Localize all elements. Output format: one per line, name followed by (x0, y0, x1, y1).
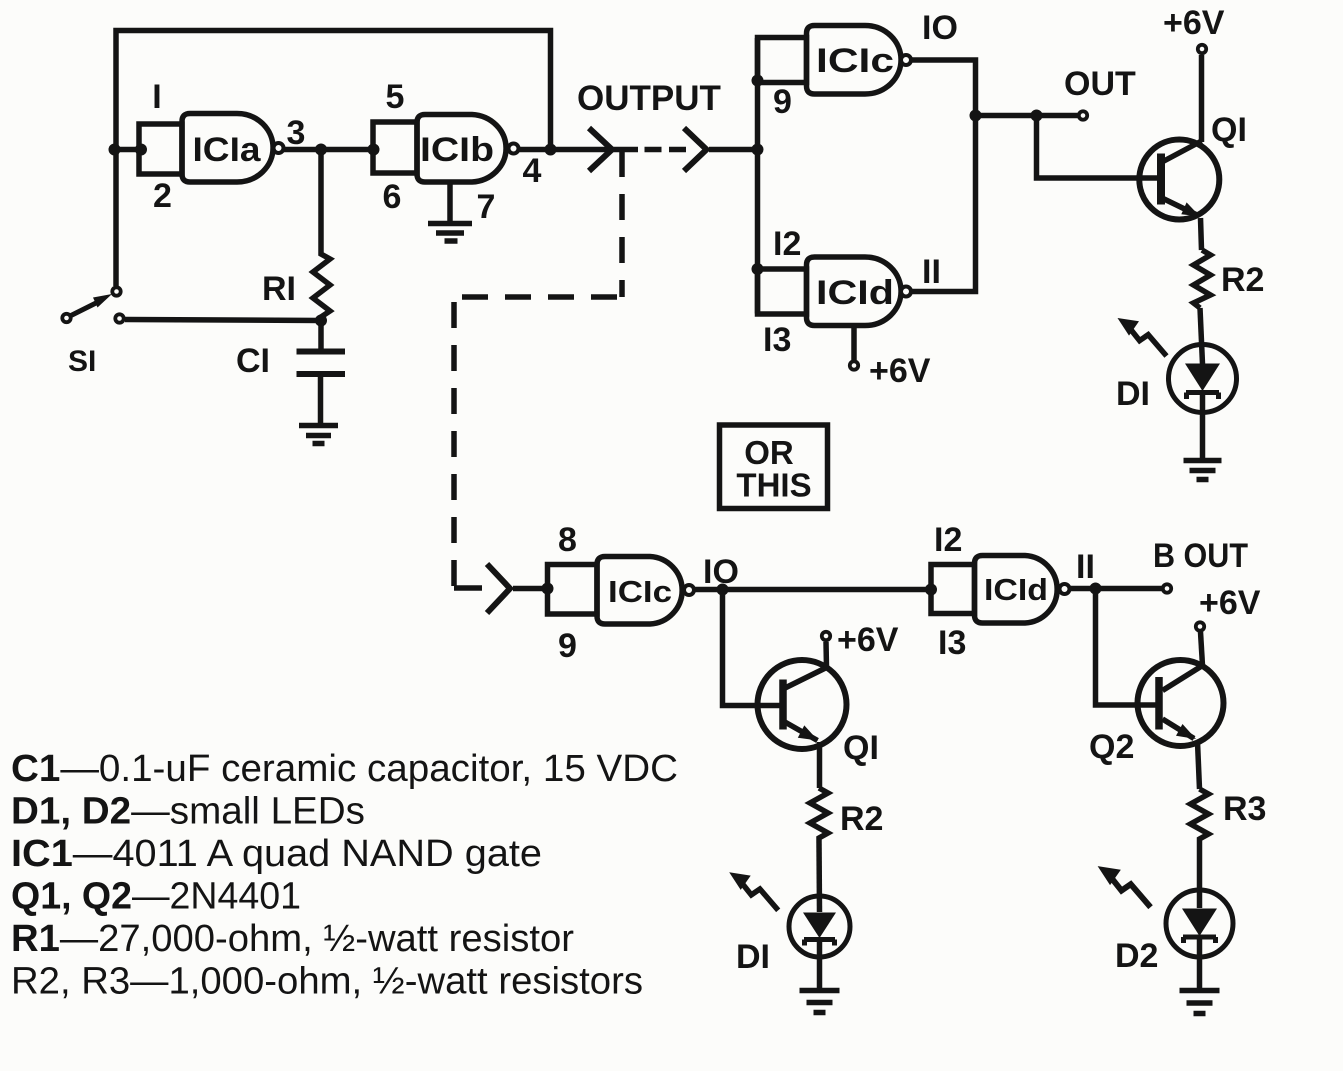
wire dashed alternate route (619, 151, 625, 297)
svg-text:R2: R2 (840, 800, 883, 838)
wire IC1b out to node 4 (519, 147, 608, 153)
svg-text:DI: DI (1116, 375, 1150, 413)
node pin12 junction (752, 263, 764, 275)
svg-text:C1—0.1-uF ceramic capacitor, 1: C1—0.1-uF ceramic capacitor, 15 VDC (11, 748, 678, 790)
node OUT branch (1031, 110, 1043, 122)
svg-text:ICId: ICId (984, 572, 1048, 607)
node pin9 junction (752, 75, 764, 87)
NAND gate IC1b body (417, 115, 506, 183)
arrow chevron 3 (into lower IC1c) (487, 564, 510, 613)
IC1c output bubble (bottom) (684, 585, 694, 595)
svg-text:5: 5 (386, 78, 405, 116)
wire IC1c/IC1d outputs joined (912, 60, 976, 292)
IC1d output bubble (901, 287, 911, 297)
IC1b output bubble (509, 144, 519, 154)
resistor R3 (1191, 789, 1209, 842)
node 3 junction (315, 144, 327, 156)
IC1d output bubble (bottom) (1060, 584, 1070, 594)
node 4 junction (545, 144, 557, 156)
svg-text:+6V: +6V (869, 352, 931, 390)
wire IC1c out to IC1d in (bottom) (695, 587, 932, 593)
wire node11 down to Q2 base (1096, 589, 1160, 706)
wire Q1 emitter down (817, 742, 823, 788)
svg-text:ICIb: ICIb (420, 131, 494, 169)
wire Q1 emitter to R2 (1201, 218, 1202, 250)
capacitor C1 (318, 321, 324, 350)
terminal +6V (top right) (1198, 45, 1206, 53)
ground at C1 (299, 426, 338, 444)
svg-text:4: 4 (523, 152, 542, 190)
wire R3 to LED D2 (1197, 842, 1203, 908)
wire chevron3 to IC1c input (513, 586, 548, 592)
NAND gate IC1a body (182, 114, 273, 183)
svg-text:Q2: Q2 (1089, 728, 1134, 766)
NAND gate IC1d body (top) (807, 257, 902, 326)
terminal +6V (IC1d pin 14) (850, 361, 858, 369)
NAND gate IC1d body (bottom) (975, 556, 1058, 624)
svg-text:9: 9 (558, 627, 577, 665)
svg-text:R2: R2 (1221, 261, 1264, 299)
IC1a input tie box (pins 1,2) (139, 124, 182, 174)
svg-text:SI: SI (68, 345, 96, 378)
box OR THIS (720, 425, 828, 509)
NAND gate IC1c body (top) (807, 26, 902, 95)
svg-text:8: 8 (558, 521, 577, 559)
node output join (970, 110, 982, 122)
NAND gate IC1c body (bottom) (597, 557, 682, 625)
svg-text:CI: CI (236, 342, 270, 380)
wire Q2 collector to +6V (1201, 632, 1203, 666)
IC1a output bubble (274, 143, 284, 153)
node junction at IC1c input (542, 583, 554, 595)
IC1d input tie box (top) (758, 269, 807, 314)
resistor R1 (313, 150, 330, 321)
wire node10 down to Q1 base (bottom) (723, 590, 784, 706)
svg-text:ICId: ICId (816, 274, 894, 312)
wire IC1b pin7 to ground (447, 182, 453, 221)
svg-text:R2, R3—1,000-ohm, ½-watt resis: R2, R3—1,000-ohm, ½-watt resistors (11, 961, 643, 1003)
svg-text:I3: I3 (938, 624, 966, 662)
transistor Q1 (top) (1139, 140, 1219, 220)
svg-text:II: II (1076, 548, 1095, 586)
svg-text:+6V: +6V (1163, 4, 1225, 42)
svg-text:3: 3 (287, 114, 306, 152)
resistor R2 (top) (1194, 250, 1211, 308)
wire chevron2 to right rail (709, 147, 758, 153)
wire R2 to LED D1 (1200, 308, 1203, 364)
svg-text:2: 2 (153, 177, 172, 215)
wire Q2 emitter down (1198, 742, 1200, 789)
svg-text:QI: QI (843, 729, 879, 767)
wire node 3 (IC1a out to IC1b in) (284, 147, 374, 153)
svg-text:B OUT: B OUT (1153, 537, 1248, 575)
svg-text:9: 9 (773, 83, 792, 121)
IC1c input tie box (bottom) (548, 565, 598, 615)
resistor R2 (bottom) (810, 788, 828, 841)
node junction left rail / pin1-2 (109, 144, 121, 156)
flash arrow D1 (bottom) (729, 872, 778, 910)
svg-text:R3: R3 (1223, 790, 1266, 828)
transistor Q1 (bottom) (758, 660, 847, 749)
svg-text:R1—27,000-ohm, ½-watt resistor: R1—27,000-ohm, ½-watt resistor (11, 918, 574, 960)
wire right input rail (pins 8/9/12/13 tie) (755, 38, 761, 314)
wire IC1d pin14 to +6V (851, 326, 857, 361)
svg-text:D2: D2 (1115, 937, 1158, 975)
wire feedback loop (left rail, top run, right leg down to node 4) (116, 31, 551, 287)
svg-text:RI: RI (262, 270, 296, 308)
flash arrow D1 (top) (1118, 318, 1167, 356)
svg-text:OR: OR (744, 434, 794, 471)
svg-text:QI: QI (1211, 111, 1247, 149)
svg-text:+6V: +6V (1199, 584, 1261, 622)
svg-text:6: 6 (383, 178, 402, 216)
svg-text:DI: DI (736, 938, 770, 976)
parts list (11, 748, 678, 1003)
terminal +6V (bottom Q2) (1196, 622, 1204, 630)
svg-text:ICIc: ICIc (608, 574, 672, 609)
wire left rail to IC1a inputs (116, 147, 140, 153)
terminal +6V (bottom Q1) (822, 632, 830, 640)
wire to OUT terminal (976, 113, 1078, 119)
node junction R1/C1/S1 (315, 315, 327, 327)
LED D1 (bottom) (789, 896, 850, 957)
svg-text:OUTPUT: OUTPUT (577, 79, 721, 118)
svg-text:I2: I2 (934, 521, 962, 559)
terminal B OUT (1163, 584, 1171, 592)
svg-text:7: 7 (477, 188, 496, 226)
arrow chevron 1 (589, 128, 612, 171)
ground at D1 (top) (1184, 461, 1222, 480)
node pin11 branch (1090, 583, 1102, 595)
LED D2 (1166, 890, 1233, 957)
flash arrow D2 (1098, 866, 1151, 907)
ground at IC1b pin 7 (428, 224, 472, 242)
svg-text:THIS: THIS (736, 467, 811, 504)
IC1c output bubble (901, 55, 911, 65)
node main input junction (752, 144, 764, 156)
svg-text:IO: IO (922, 9, 958, 47)
IC1c input tie box (758, 38, 807, 83)
node pin10 branch (717, 584, 729, 596)
LED D1 (top) (1169, 345, 1237, 413)
svg-text:OUT: OUT (1064, 65, 1136, 103)
svg-text:IO: IO (703, 553, 739, 591)
svg-text:+6V: +6V (837, 621, 899, 659)
svg-text:ICIc: ICIc (816, 42, 894, 80)
transistor Q2 (1138, 660, 1224, 746)
arrow chevron 2 (684, 128, 707, 171)
wire Q1 collector to +6V (1199, 55, 1205, 142)
wire IC1d out to B OUT (1070, 586, 1162, 592)
svg-text:II: II (922, 253, 941, 291)
svg-text:Q1, Q2—2N4401: Q1, Q2—2N4401 (11, 876, 301, 918)
wire Q1 collector to +6V (bottom) (823, 642, 829, 668)
svg-text:I3: I3 (763, 321, 791, 359)
svg-text:D1, D2—small LEDs: D1, D2—small LEDs (11, 791, 365, 833)
IC1b input tie box (pins 5,6) (373, 122, 417, 173)
wire OUT node to Q1 base (1037, 116, 1162, 179)
terminal OUT (1079, 111, 1087, 119)
ground at D1 (bottom) (800, 991, 840, 1013)
svg-text:ICIa: ICIa (193, 131, 262, 169)
ground at D2 (1180, 991, 1220, 1014)
wire T-bar dash (614, 147, 639, 153)
wire S1 to R1/C1 junction (125, 320, 321, 321)
svg-text:IC1—4011 A quad NAND gate: IC1—4011 A quad NAND gate (11, 833, 542, 875)
wire dash segments (645, 147, 687, 153)
IC1d input tie box (bottom) (931, 565, 975, 614)
switch S1 (112, 287, 120, 295)
svg-text:I: I (152, 78, 161, 116)
svg-text:I2: I2 (773, 225, 801, 263)
wire R2 to LED D1 (bottom) (816, 841, 822, 912)
